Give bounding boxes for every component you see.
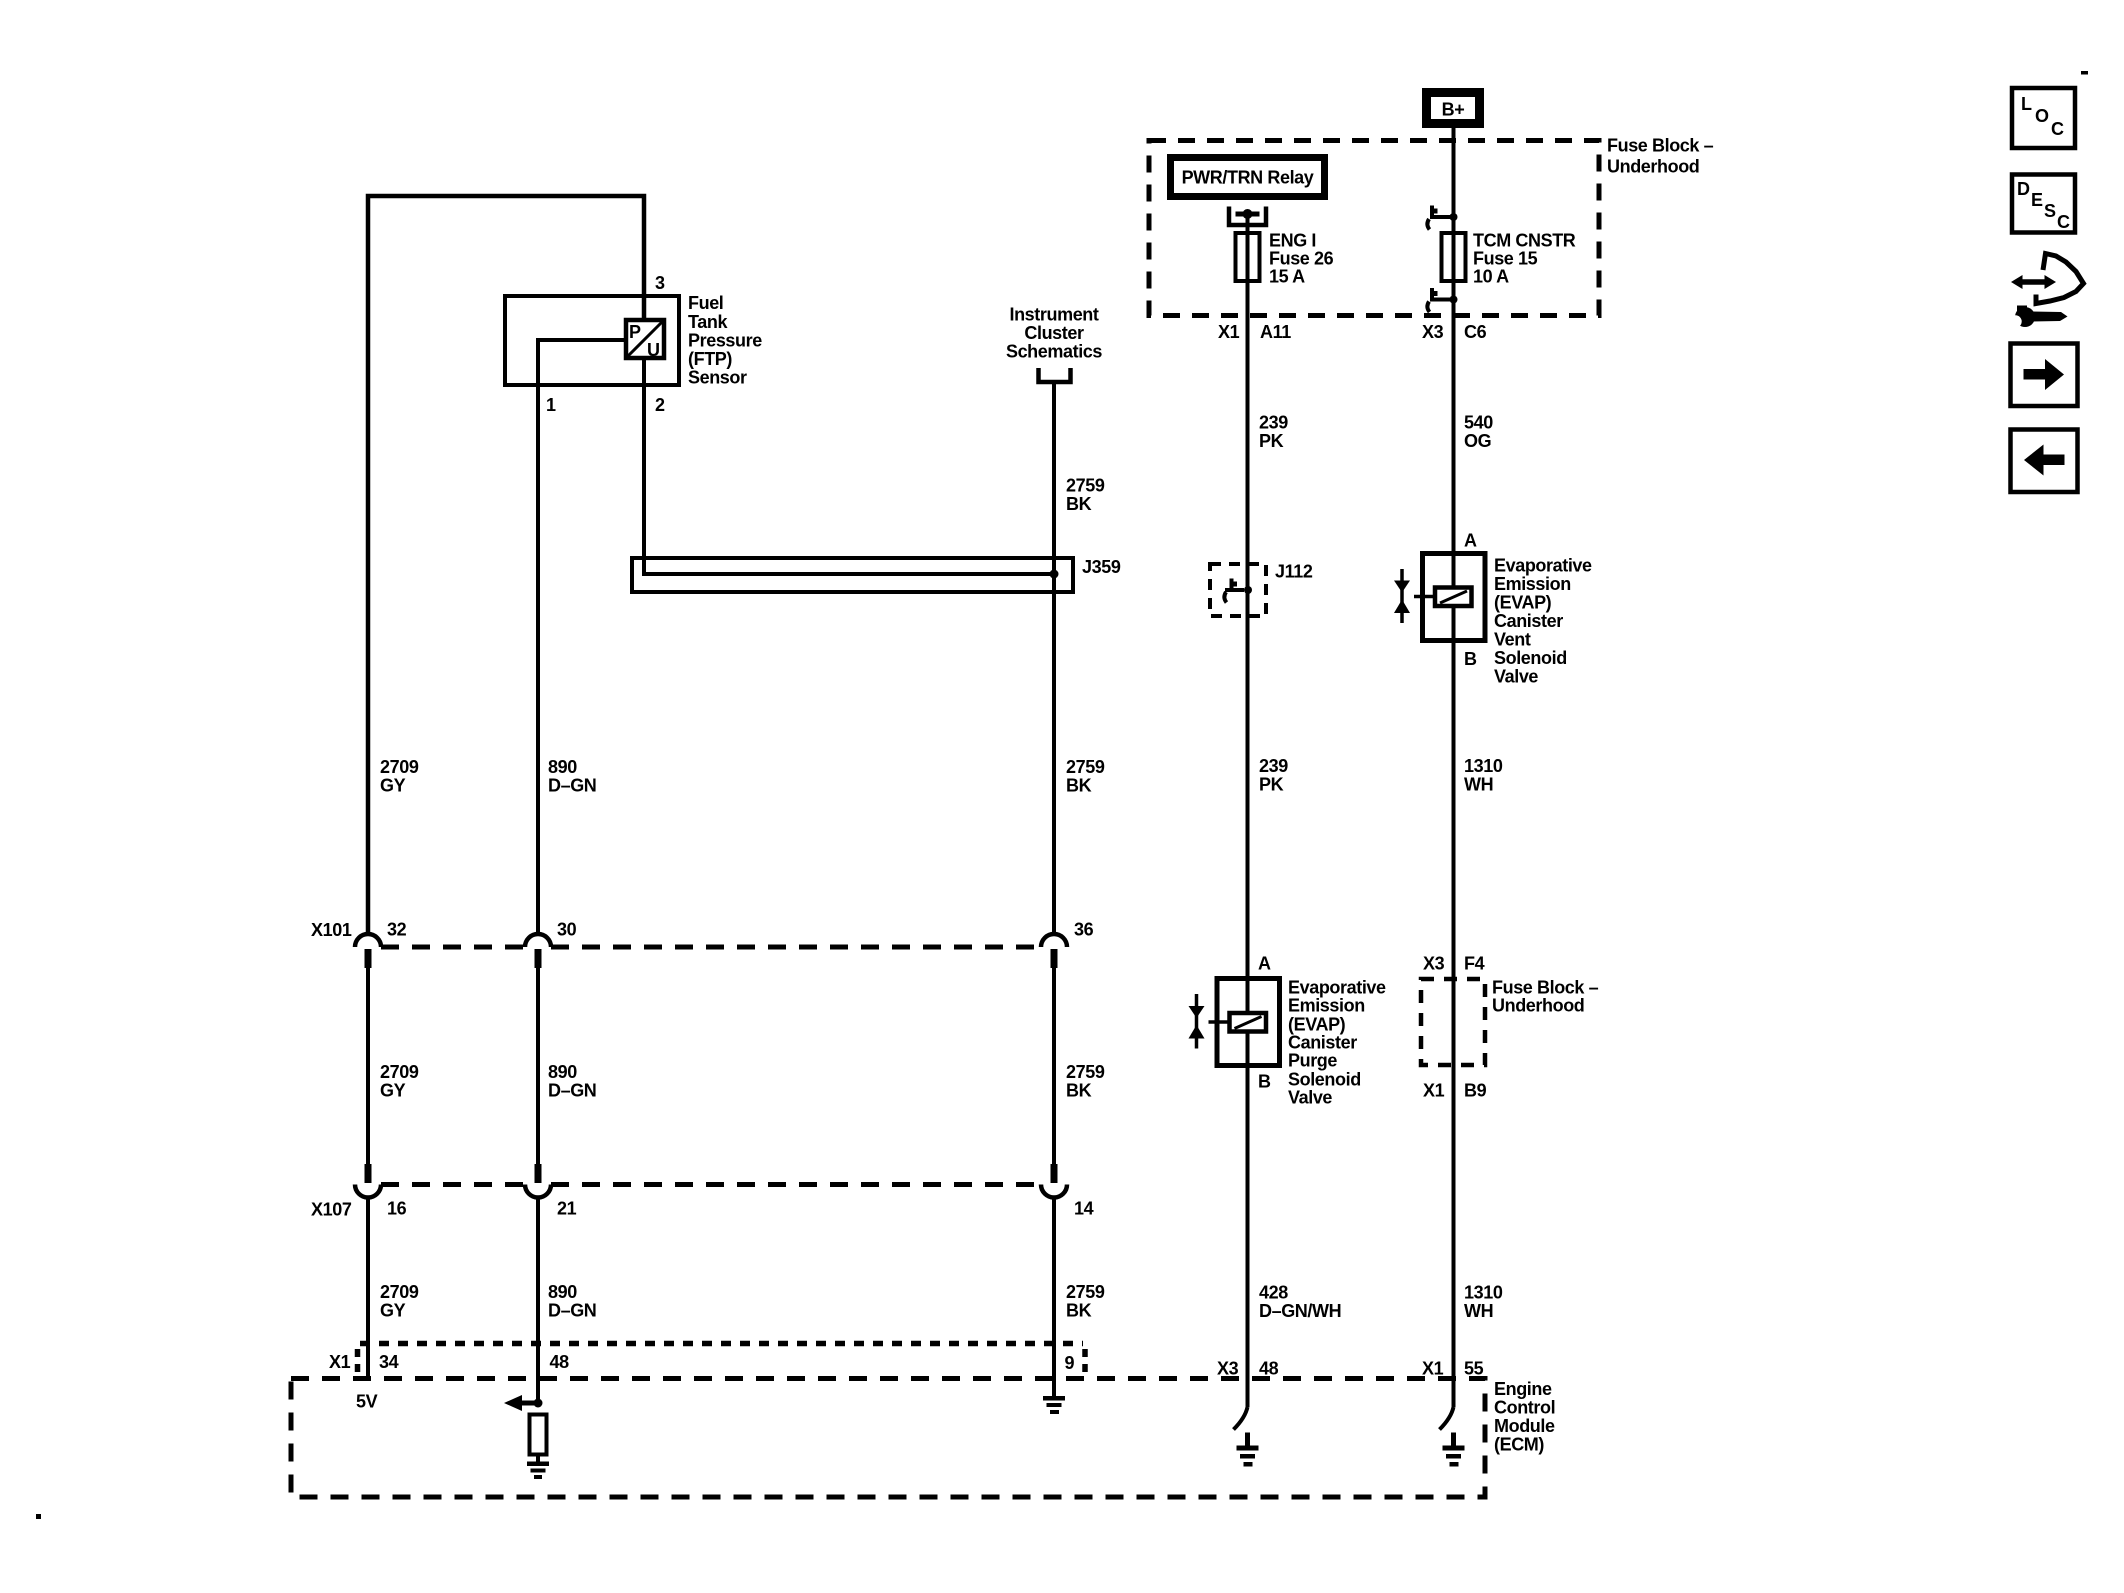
- svg-text:Instrument: Instrument: [1009, 305, 1098, 325]
- hook clip below TCM fuse: [1427, 288, 1457, 312]
- svg-text:Fuse Block –: Fuse Block –: [1607, 136, 1714, 156]
- svg-text:WH: WH: [1464, 1301, 1493, 1321]
- wire 890 D-GN X101 to X107: [536, 952, 540, 1166]
- svg-text:1310: 1310: [1464, 756, 1503, 776]
- svg-text:Cluster: Cluster: [1024, 323, 1084, 343]
- wire label 540 OG: [1464, 413, 1493, 452]
- wire B+ to fuse: [1452, 128, 1456, 233]
- splice J112 box: [1210, 564, 1266, 616]
- svg-text:(EVAP): (EVAP): [1288, 1015, 1346, 1035]
- ECM switch to ground pin 48: [1234, 1407, 1259, 1467]
- svg-text:2709: 2709: [380, 757, 419, 777]
- label Engine Control Module ECM: [1494, 1379, 1555, 1455]
- wire 890 D-GN X107 to ECM: [536, 1197, 540, 1403]
- svg-text:D–GN: D–GN: [548, 1081, 596, 1101]
- svg-text:PK: PK: [1259, 775, 1284, 795]
- svg-text:Valve: Valve: [1494, 667, 1538, 687]
- svg-text:A11: A11: [1260, 322, 1291, 342]
- LOC navigation icon: [2012, 88, 2075, 148]
- svg-text:540: 540: [1464, 413, 1493, 433]
- svg-text:Vent: Vent: [1494, 630, 1531, 650]
- svg-text:Fuse 15: Fuse 15: [1473, 249, 1538, 269]
- svg-text:X1: X1: [329, 1352, 351, 1372]
- label X3 48: [1217, 1359, 1279, 1379]
- svg-text:3: 3: [655, 273, 665, 293]
- wire EVAP vent valve down to ECM: [1452, 606, 1456, 1407]
- label X3 C6: [1422, 322, 1487, 342]
- svg-text:890: 890: [548, 757, 577, 777]
- Instrument Cluster Schematics label: [1006, 305, 1102, 362]
- svg-text:10 A: 10 A: [1473, 267, 1509, 287]
- label Fuse Block Underhood: [1607, 136, 1714, 177]
- svg-text:2759: 2759: [1066, 1062, 1105, 1082]
- svg-text:B: B: [1258, 1072, 1271, 1092]
- EVAP vent solenoid valve: [1394, 531, 1485, 670]
- svg-text:Control: Control: [1494, 1398, 1555, 1418]
- svg-text:U: U: [647, 340, 660, 360]
- PWR/TRN Relay box: [1171, 158, 1325, 197]
- wire relay through fuse to EVAP purge valve: [1246, 214, 1250, 1013]
- svg-text:Underhood: Underhood: [1492, 996, 1584, 1016]
- wire EVAP purge valve down to ECM: [1246, 1031, 1250, 1407]
- connector X101 arc pin 36: [1041, 934, 1067, 947]
- ECM box: [291, 1379, 1485, 1498]
- svg-text:P: P: [629, 322, 641, 342]
- wire 2759 BK X107 to ECM: [1052, 1197, 1056, 1397]
- svg-text:TCM CNSTR: TCM CNSTR: [1473, 231, 1576, 251]
- svg-text:9: 9: [1065, 1353, 1075, 1373]
- svg-text:D–GN: D–GN: [548, 1301, 596, 1321]
- svg-text:5V: 5V: [356, 1392, 378, 1412]
- svg-text:Pressure: Pressure: [688, 331, 762, 351]
- FTP sensor box: [505, 296, 679, 385]
- svg-text:O: O: [2035, 106, 2049, 126]
- svg-text:55: 55: [1464, 1359, 1484, 1379]
- svg-text:2709: 2709: [380, 1282, 419, 1302]
- connector X101 pin terminals: [365, 949, 1058, 968]
- connector row X101 dashed line: [381, 945, 1041, 950]
- svg-text:X1: X1: [1422, 1359, 1444, 1379]
- svg-text:A: A: [1464, 531, 1477, 551]
- svg-text:239: 239: [1259, 413, 1288, 433]
- svg-text:14: 14: [1074, 1199, 1094, 1219]
- svg-text:2709: 2709: [380, 1062, 419, 1082]
- svg-text:X3: X3: [1423, 954, 1445, 974]
- svg-text:Underhood: Underhood: [1607, 157, 1699, 177]
- svg-text:Fuse Block –: Fuse Block –: [1492, 978, 1599, 998]
- svg-text:B+: B+: [1442, 100, 1465, 120]
- svg-text:Canister: Canister: [1288, 1033, 1357, 1053]
- label X3 F4: [1423, 954, 1485, 974]
- wire label 890 D-GN row1: [548, 757, 596, 796]
- svg-text:Sensor: Sensor: [688, 368, 747, 388]
- svg-text:GY: GY: [380, 1301, 406, 1321]
- svg-text:(EVAP): (EVAP): [1494, 593, 1552, 613]
- connector X101 arc pin 32: [355, 934, 381, 947]
- svg-text:C: C: [2057, 212, 2070, 232]
- connector X107 arc pin 21: [525, 1185, 551, 1198]
- related-wiring icon (double arrow with wrench): [2009, 254, 2083, 328]
- connector row X107 dashed line: [381, 1182, 1041, 1187]
- FTP sensor name label: [688, 293, 762, 388]
- svg-text:Purge: Purge: [1288, 1051, 1337, 1071]
- forward arrow icon: [2011, 344, 2078, 407]
- wire label 2759 BK row2: [1066, 1062, 1105, 1101]
- svg-text:428: 428: [1259, 1283, 1288, 1303]
- wire label 1310 WH lower: [1464, 1283, 1503, 1322]
- wire label 890 D-GN row3: [548, 1282, 596, 1321]
- svg-text:X107: X107: [311, 1200, 352, 1220]
- wire label 428 D-GN/WH: [1259, 1283, 1341, 1322]
- svg-text:C: C: [2051, 119, 2064, 139]
- svg-text:48: 48: [550, 1352, 570, 1372]
- internal arrow junction on pin 48: [504, 1395, 543, 1411]
- svg-text:(FTP): (FTP): [688, 349, 732, 369]
- hook clip splice J112: [1224, 579, 1252, 603]
- wire label 1310 WH mid: [1464, 756, 1503, 795]
- EVAP purge solenoid valve: [1189, 954, 1280, 1092]
- wire label 2759 BK row3: [1066, 1282, 1105, 1321]
- wire label 239 PK upper: [1259, 413, 1288, 452]
- Fuse Block Underhood box: [1149, 141, 1599, 316]
- X1 row right tick: [1082, 1349, 1088, 1376]
- svg-text:Solenoid: Solenoid: [1288, 1070, 1361, 1090]
- splice J359 box: [632, 558, 1073, 592]
- svg-text:B: B: [1464, 649, 1477, 669]
- svg-text:Engine: Engine: [1494, 1379, 1552, 1399]
- svg-text:2: 2: [655, 395, 665, 415]
- svg-text:X3: X3: [1217, 1359, 1239, 1379]
- wire 5V supply loop (2709 GY top run): [368, 196, 644, 934]
- svg-text:Module: Module: [1494, 1416, 1555, 1436]
- svg-text:F4: F4: [1464, 954, 1485, 974]
- DESC navigation icon: [2012, 175, 2075, 233]
- svg-text:239: 239: [1259, 756, 1288, 776]
- svg-text:PWR/TRN Relay: PWR/TRN Relay: [1182, 168, 1314, 188]
- connector X107 pin terminals: [365, 1164, 1058, 1183]
- svg-text:2759: 2759: [1066, 1282, 1105, 1302]
- wire pin1 890 D-GN: [538, 340, 626, 934]
- X1 row left tick: [355, 1349, 361, 1376]
- wire pin2 2759 BK down to J359: [644, 358, 1052, 574]
- svg-text:C6: C6: [1464, 322, 1487, 342]
- svg-text:ENG I: ENG I: [1269, 231, 1316, 251]
- svg-text:21: 21: [557, 1199, 577, 1219]
- fuse ENG I Fuse 26: [1236, 233, 1260, 281]
- svg-text:GY: GY: [380, 776, 406, 796]
- svg-text:D–GN: D–GN: [548, 776, 596, 796]
- ECM connector row X1 dotted line: [360, 1341, 1083, 1347]
- instrument cluster connector symbol: [1039, 368, 1071, 382]
- label EVAP purge valve: [1288, 978, 1386, 1108]
- ECM switch to ground pin 55: [1440, 1407, 1465, 1467]
- svg-text:BK: BK: [1066, 494, 1092, 514]
- svg-text:E: E: [2031, 190, 2043, 210]
- svg-text:Evaporative: Evaporative: [1494, 556, 1592, 576]
- wire 2709 GY X107 to ECM: [366, 1197, 370, 1379]
- label Fuse Block Underhood 2: [1492, 978, 1599, 1016]
- junction dot J359: [1050, 570, 1059, 579]
- relay output terminal cup: [1229, 207, 1266, 226]
- fuse TCM CNSTR Fuse 15: [1442, 233, 1466, 281]
- connector X101 arc pin 30: [525, 934, 551, 947]
- svg-text:Emission: Emission: [1494, 574, 1571, 594]
- fuse block underhood pass-through box: [1421, 979, 1485, 1065]
- svg-text:Valve: Valve: [1288, 1088, 1332, 1108]
- svg-text:B9: B9: [1464, 1081, 1487, 1101]
- svg-text:BK: BK: [1066, 1301, 1092, 1321]
- svg-text:X1: X1: [1423, 1081, 1445, 1101]
- svg-text:J112: J112: [1275, 562, 1313, 582]
- svg-text:30: 30: [557, 920, 577, 940]
- svg-text:BK: BK: [1066, 776, 1092, 796]
- svg-text:2759: 2759: [1066, 476, 1105, 496]
- label ENG I Fuse 26 15 A: [1269, 231, 1334, 287]
- svg-text:Emission: Emission: [1288, 996, 1365, 1016]
- label TCM CNSTR Fuse 15 10 A: [1473, 231, 1576, 287]
- svg-text:Tank: Tank: [688, 312, 728, 332]
- svg-text:1: 1: [546, 395, 556, 415]
- back arrow icon: [2011, 430, 2078, 493]
- svg-text:BK: BK: [1066, 1081, 1092, 1101]
- svg-text:L: L: [2021, 94, 2032, 114]
- connector X107 arc pin 16: [355, 1185, 381, 1198]
- svg-text:15 A: 15 A: [1269, 267, 1305, 287]
- wire label 2709 GY row2: [380, 1062, 419, 1101]
- svg-text:Solenoid: Solenoid: [1494, 648, 1567, 668]
- hook clip above TCM fuse: [1427, 206, 1457, 230]
- connector X107 arc pin 14: [1041, 1185, 1067, 1198]
- svg-text:890: 890: [548, 1062, 577, 1082]
- svg-text:16: 16: [387, 1199, 407, 1219]
- svg-text:D–GN/WH: D–GN/WH: [1259, 1301, 1341, 1321]
- svg-text:J359: J359: [1082, 557, 1121, 577]
- B+ power feed box: [1427, 93, 1480, 124]
- svg-text:X101: X101: [311, 920, 352, 940]
- label X1 B9: [1423, 1081, 1487, 1101]
- svg-text:34: 34: [379, 1352, 399, 1372]
- svg-text:Evaporative: Evaporative: [1288, 978, 1386, 998]
- svg-text:WH: WH: [1464, 775, 1493, 795]
- svg-text:A: A: [1258, 954, 1271, 974]
- wire label 2759 BK row1: [1066, 757, 1105, 796]
- wire 2759 BK from cluster: [1052, 384, 1056, 934]
- svg-text:36: 36: [1074, 920, 1094, 940]
- P/U pressure transducer symbol: [626, 320, 664, 360]
- svg-text:S: S: [2044, 201, 2056, 221]
- wire label 890 D-GN row2: [548, 1062, 596, 1101]
- svg-text:32: 32: [387, 920, 407, 940]
- svg-text:X3: X3: [1422, 322, 1444, 342]
- label X1 55: [1422, 1359, 1484, 1379]
- wire 2759 BK X101 to X107: [1052, 952, 1056, 1166]
- svg-text:48: 48: [1259, 1359, 1279, 1379]
- wire TCM fuse to EVAP vent valve: [1452, 233, 1456, 588]
- svg-text:1310: 1310: [1464, 1283, 1503, 1303]
- wire label 2709 GY row1: [380, 757, 419, 796]
- svg-text:PK: PK: [1259, 431, 1284, 451]
- ground pin 9: [1043, 1396, 1065, 1414]
- svg-text:Fuel: Fuel: [688, 293, 723, 313]
- svg-text:D: D: [2017, 179, 2030, 199]
- svg-text:(ECM): (ECM): [1494, 1435, 1544, 1455]
- svg-text:890: 890: [548, 1282, 577, 1302]
- wire label 239 PK mid: [1259, 756, 1288, 795]
- svg-text:X1: X1: [1218, 322, 1240, 342]
- label X1 A11: [1218, 322, 1291, 342]
- resistor (pull-up): [530, 1415, 547, 1455]
- svg-text:OG: OG: [1464, 431, 1491, 451]
- tiny scan mark top right: [2081, 71, 2088, 75]
- svg-text:Fuse 26: Fuse 26: [1269, 249, 1334, 269]
- svg-text:Schematics: Schematics: [1006, 342, 1102, 362]
- ground under resistor: [527, 1455, 549, 1480]
- wire label 2709 GY row3: [380, 1282, 419, 1321]
- label EVAP vent valve: [1494, 556, 1592, 687]
- wire 2709 GY X101 to X107: [366, 952, 370, 1166]
- svg-text:GY: GY: [380, 1081, 406, 1101]
- tiny scan mark bottom left: [36, 1514, 41, 1519]
- svg-text:Canister: Canister: [1494, 611, 1563, 631]
- wire label 2759 BK upper: [1066, 476, 1105, 515]
- svg-text:2759: 2759: [1066, 757, 1105, 777]
